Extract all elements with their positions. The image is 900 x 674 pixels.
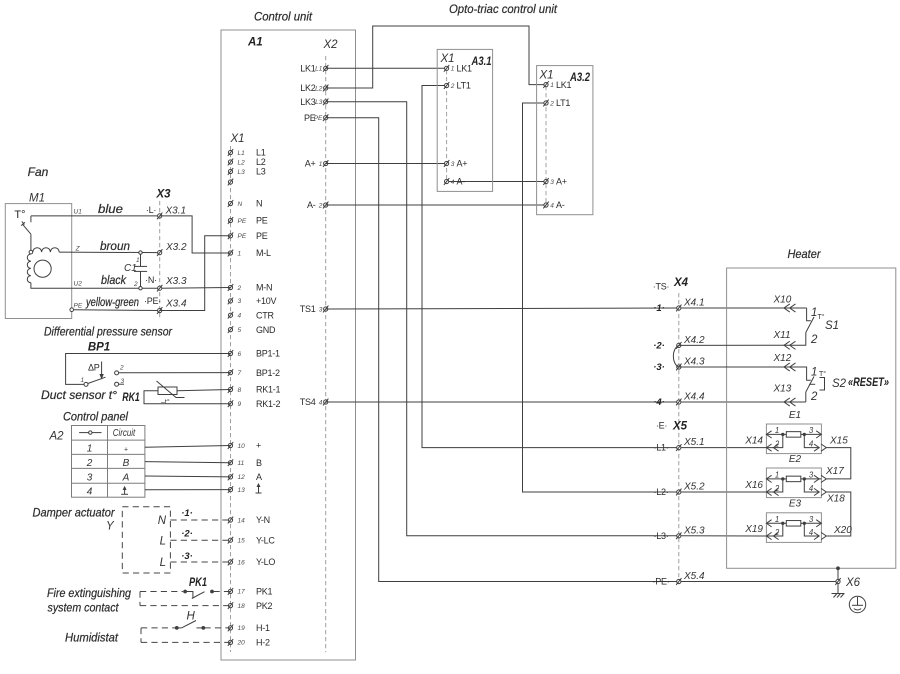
connector X11 chevrons: [784, 341, 790, 349]
svg-text:T°: T°: [14, 209, 25, 221]
svg-text:X11: X11: [773, 330, 791, 341]
terminal X3.4: [157, 299, 187, 314]
svg-text:1: 1: [550, 82, 554, 89]
svg-text:·1·: ·1·: [653, 303, 665, 314]
svg-text:·E·: ·E·: [656, 421, 667, 431]
terminal X4.1: [653, 298, 704, 315]
terminal X5.2: [653, 482, 705, 498]
svg-text:broun: broun: [100, 239, 130, 253]
svg-text:A+: A+: [305, 159, 316, 169]
svg-text:LK1: LK1: [556, 80, 572, 90]
svg-text:9: 9: [238, 401, 242, 408]
svg-text:X14: X14: [744, 436, 763, 447]
wire A2 row2 to X1:11: [145, 462, 231, 463]
svg-text:X4.1: X4.1: [683, 298, 705, 309]
svg-text:Circuit: Circuit: [113, 428, 136, 439]
terminal X3.3: [157, 276, 187, 292]
fire contact dashed wire left: [140, 591, 183, 593]
svg-text:·4·: ·4·: [653, 397, 665, 408]
svg-text:7: 7: [238, 370, 242, 377]
motor thermal contact: [21, 216, 31, 250]
svg-text:Fan: Fan: [28, 165, 49, 179]
svg-text:L3: L3: [256, 167, 266, 177]
junction dot heater enclosure PE: [836, 566, 840, 570]
svg-text:2: 2: [450, 83, 455, 90]
svg-text:14: 14: [238, 517, 246, 524]
BP1 actuator arrow dP: [99, 362, 103, 380]
wire BP1 pin2 to X1:7: [119, 372, 231, 374]
svg-text:GND: GND: [256, 325, 276, 335]
terminal X1:PE PE: [228, 216, 268, 226]
svg-text:A-: A-: [457, 177, 466, 187]
terminal strip X1 dashed line: [230, 146, 232, 652]
svg-text:TS4: TS4: [300, 397, 316, 407]
fire contact dashed wire right to X1:17: [214, 591, 231, 593]
wire yellow-green PE to X3.4: [74, 309, 160, 312]
motor bottom wire to U2: [31, 283, 160, 289]
svg-text:T°: T°: [818, 313, 825, 321]
svg-text:L1: L1: [315, 66, 323, 73]
humidistat dashed wire to X1:20: [141, 641, 231, 643]
svg-text:Control panel: Control panel: [63, 410, 128, 424]
svg-text:Opto-triac control unit: Opto-triac control unit: [449, 2, 558, 16]
humidistat dashed wire left: [141, 627, 175, 629]
E2 pin 1: [766, 471, 782, 483]
terminal X1:20 H-2: [228, 638, 270, 648]
svg-text:PE: PE: [314, 115, 323, 122]
terminal X2:L1 LK1: [300, 64, 328, 74]
svg-text:LK2: LK2: [300, 83, 316, 93]
wire RK1 right to X1:8: [177, 390, 231, 391]
terminal X1:17 PK1: [228, 587, 273, 597]
E1 pin 3: [804, 426, 821, 438]
terminal X1:L2 L2: [228, 157, 266, 167]
svg-text:L1: L1: [256, 148, 266, 158]
svg-text:L3: L3: [315, 99, 323, 106]
terminal X1:3 +10V: [228, 296, 277, 306]
svg-text:X5.2: X5.2: [683, 482, 705, 493]
svg-text:X16: X16: [744, 480, 763, 491]
E2 pin 3: [804, 471, 826, 483]
svg-text:3: 3: [809, 471, 814, 480]
svg-text:X19: X19: [744, 524, 763, 535]
svg-text:1: 1: [136, 257, 140, 264]
thermal cutout S2: [679, 367, 814, 402]
svg-text:3: 3: [238, 298, 242, 305]
wire RK1 left to X1:9: [144, 391, 231, 404]
terminal X1:15 Y-LC: [228, 535, 276, 545]
svg-text:3: 3: [550, 179, 554, 186]
E2 pin 4: [804, 479, 826, 496]
svg-text:X17: X17: [825, 466, 844, 477]
svg-text:2: 2: [119, 365, 124, 372]
node C1 bottom on black wire: [139, 287, 142, 290]
svg-text:12: 12: [238, 474, 246, 481]
svg-text:15: 15: [238, 538, 246, 545]
svg-text:1: 1: [811, 367, 817, 379]
svg-text:17: 17: [238, 589, 246, 596]
S2 reset dashed link: [809, 383, 819, 385]
E1 pin 1: [766, 426, 782, 438]
svg-text:X4.4: X4.4: [683, 392, 705, 403]
svg-text:·N·: ·N·: [145, 275, 157, 285]
svg-text:N: N: [256, 199, 262, 209]
wire LK2 X2 to A3.2:1: [326, 26, 546, 88]
svg-text:ΔP: ΔP: [88, 363, 100, 373]
svg-text:BP1-2: BP1-2: [256, 368, 280, 378]
svg-text:X20: X20: [833, 525, 852, 536]
svg-text:X5.4: X5.4: [683, 571, 705, 582]
svg-text:1: 1: [775, 515, 779, 524]
svg-text:RK1: RK1: [122, 392, 140, 404]
svg-text:E3: E3: [789, 499, 802, 510]
svg-text:·1·: ·1·: [181, 508, 193, 519]
control unit A1 box: [221, 30, 356, 660]
svg-text:+: +: [256, 441, 261, 451]
signal-ground symbol at X1:13: [256, 483, 262, 493]
resistor in E2: [786, 476, 801, 482]
damper actuator Y dashed box: [122, 507, 170, 573]
svg-text:A-: A-: [307, 200, 316, 210]
svg-text:·L2·: ·L2·: [653, 487, 668, 497]
terminal X1:8 RK1-1: [228, 385, 281, 395]
svg-text:4: 4: [809, 439, 814, 448]
svg-text:Fire extinguishing: Fire extinguishing: [47, 586, 131, 600]
svg-text:·2·: ·2·: [653, 340, 665, 351]
motor rotor circle: [34, 260, 51, 277]
svg-text:2: 2: [774, 439, 780, 448]
A2 row 4 signal ground symbol: [121, 486, 128, 495]
terminal X1:9 RK1-2: [228, 399, 281, 409]
dashed wire damper L to X1:15: [170, 539, 230, 541]
svg-text:11: 11: [238, 460, 245, 467]
wire X3.4 to X1:PE: [160, 236, 231, 311]
opto-triac module A3.2 box: [537, 66, 593, 215]
thermistor RK1 body: [158, 387, 177, 395]
svg-text:PK1: PK1: [256, 587, 273, 597]
fire contact bracket: [139, 592, 141, 606]
svg-text:16: 16: [238, 559, 246, 566]
svg-text:+10V: +10V: [256, 296, 277, 306]
humidistat dashed wire right to X1:19: [205, 627, 231, 629]
svg-text:X15: X15: [829, 436, 848, 447]
svg-text:X1: X1: [230, 133, 245, 145]
svg-text:13: 13: [238, 487, 246, 494]
terminal X1:19 H-1: [228, 623, 270, 633]
svg-text:1: 1: [775, 471, 779, 480]
svg-text:1: 1: [238, 250, 242, 257]
connector X13 chevrons: [784, 398, 790, 406]
svg-text:4: 4: [550, 202, 554, 209]
svg-text:X1: X1: [539, 70, 554, 82]
svg-text:LK3: LK3: [300, 97, 316, 107]
svg-text:PE: PE: [238, 218, 247, 225]
svg-text:Y-N: Y-N: [256, 515, 270, 525]
terminal A3.1 X1:4 A-: [444, 177, 465, 187]
wire X15 to X17 bracket: [826, 448, 851, 479]
wire A3.1:2 LT1 to X5.1: [422, 86, 766, 448]
svg-text:3: 3: [319, 306, 323, 313]
terminal X3.2: [157, 242, 187, 256]
svg-text:–t°: –t°: [161, 398, 170, 406]
thermistor RK1 strike: [157, 381, 185, 398]
A2 header contact symbol: [79, 431, 101, 434]
E3 pin 3: [804, 515, 821, 527]
terminal strip X2 dashed line: [325, 56, 327, 652]
wire TS4 X2 to X4.4: [326, 401, 806, 403]
svg-text:M-N: M-N: [256, 283, 272, 293]
svg-text:X13: X13: [773, 384, 792, 395]
terminal strip X3 dashed line: [159, 201, 161, 318]
terminal X1:7 BP1-2: [228, 368, 280, 378]
svg-text:PK1: PK1: [189, 577, 207, 589]
svg-text:T°: T°: [819, 370, 826, 378]
svg-text:1: 1: [81, 377, 85, 384]
terminal X2:2 A-: [307, 200, 328, 210]
svg-text:4: 4: [809, 484, 814, 493]
svg-text:E2: E2: [789, 454, 802, 465]
wire A3.1:4 to A3.2:3: [447, 181, 546, 183]
svg-text:18: 18: [238, 603, 246, 610]
terminal X2:1 A+: [305, 159, 329, 169]
svg-text:·L3·: ·L3·: [653, 531, 668, 541]
terminal X1:6 BP1-1: [228, 349, 280, 359]
svg-text:S2: S2: [832, 378, 847, 390]
terminal X1:spare: [228, 179, 233, 186]
terminal X1:13: [228, 486, 245, 494]
humidistat contact H: [175, 621, 205, 630]
wire A2 row1 to X1:10: [145, 446, 231, 448]
wire TS1 X2 to X4.1: [326, 308, 807, 309]
svg-text:L1: L1: [238, 150, 246, 157]
svg-text:X4.2: X4.2: [683, 335, 705, 346]
BP1 pin 1: [84, 382, 88, 386]
svg-text:X4: X4: [673, 277, 689, 289]
svg-text:A+: A+: [457, 159, 468, 169]
svg-text:4: 4: [451, 179, 455, 186]
BP1 pin 3: [115, 382, 119, 386]
svg-text:X3.4: X3.4: [165, 299, 187, 310]
svg-text:1: 1: [451, 66, 455, 73]
svg-text:S1: S1: [825, 320, 839, 332]
terminal X1:N N: [228, 199, 262, 209]
svg-text:X3: X3: [155, 189, 171, 201]
heating element E2 box: [766, 468, 821, 498]
motor M1 box: [5, 204, 71, 319]
terminal A3.1 X1:3 A+: [444, 159, 467, 169]
terminal X2:L3 LK3: [300, 97, 328, 107]
svg-text:1: 1: [87, 444, 93, 455]
svg-text:H-1: H-1: [256, 623, 270, 633]
svg-text:Y-LC: Y-LC: [256, 535, 275, 545]
terminal X6: [835, 578, 840, 585]
svg-text:2: 2: [318, 202, 323, 209]
wire A- X2 to A3.2:4: [326, 204, 546, 206]
svg-text:X5.3: X5.3: [683, 525, 705, 536]
A3.2 X1 dashed strip: [545, 86, 547, 205]
svg-text:LT1: LT1: [457, 81, 471, 91]
terminal A3.2 X1:3 A+: [543, 177, 566, 187]
E1 pin 4: [804, 434, 826, 451]
opto-triac module A3.1 box: [437, 49, 492, 191]
terminal X2:L2 LK2: [300, 83, 328, 93]
svg-text:4: 4: [319, 399, 323, 406]
wire A3.2:2 LT1 to X5.2: [523, 103, 767, 492]
svg-text:3: 3: [809, 515, 814, 524]
terminal X4.2: [653, 335, 705, 352]
svg-text:blue: blue: [98, 202, 123, 216]
svg-text:X12: X12: [773, 353, 792, 364]
wire BP1 common to X1:6: [66, 354, 231, 385]
svg-text:Damper actuator: Damper actuator: [33, 506, 116, 520]
svg-text:Differential pressure sensor: Differential pressure sensor: [44, 325, 173, 339]
dashed wire damper N to X1:14: [170, 519, 230, 521]
svg-text:2: 2: [549, 100, 554, 107]
svg-text:X18: X18: [826, 494, 845, 505]
svg-text:A-: A-: [556, 200, 565, 210]
terminal A3.1 X1:1 LK1: [444, 64, 472, 74]
svg-text:A3.1: A3.1: [471, 56, 492, 68]
svg-text:X3.1: X3.1: [165, 206, 187, 217]
terminal X1:4 CTR: [228, 310, 275, 320]
terminal X1:5 GND: [228, 325, 276, 335]
jumper X4.2 to X4.3: [673, 345, 678, 367]
resistor in E1: [786, 432, 801, 438]
svg-text:8: 8: [238, 387, 242, 394]
svg-text:U1: U1: [74, 209, 83, 216]
svg-text:A2: A2: [48, 431, 64, 443]
svg-text:PE: PE: [256, 231, 268, 241]
wire PE X2 to X5.4 to X6: [326, 118, 838, 582]
terminal X2:3 TS1: [300, 304, 329, 314]
svg-text:RK1-1: RK1-1: [256, 385, 281, 395]
terminal X1:L1 L1: [228, 148, 266, 158]
svg-text:Heater: Heater: [788, 247, 822, 261]
svg-text:L3: L3: [238, 169, 246, 176]
A3.1 X1 dashed strip: [446, 70, 448, 182]
resistor in E3: [786, 521, 801, 527]
svg-text:PK2: PK2: [256, 601, 273, 611]
svg-text:1: 1: [811, 307, 817, 319]
E3 pin 2: [766, 523, 782, 539]
svg-text:TS1: TS1: [300, 304, 316, 314]
wire LK3 X2 to X5.3: [326, 102, 767, 536]
BP1 pin3 stub: [119, 383, 124, 385]
svg-text:3: 3: [451, 161, 455, 168]
svg-text:20: 20: [237, 640, 246, 647]
svg-text:4: 4: [809, 528, 814, 537]
svg-text:6: 6: [238, 351, 242, 358]
E2 pin 2: [766, 479, 782, 496]
svg-text:N: N: [238, 201, 243, 208]
terminal A3.2 X1:4 A-: [543, 200, 564, 210]
fire contact PK1: [183, 590, 214, 599]
svg-text:L2: L2: [256, 157, 266, 167]
svg-text:·L1·: ·L1·: [653, 443, 668, 453]
svg-text:H-2: H-2: [256, 638, 270, 648]
svg-text:BP1: BP1: [88, 342, 110, 354]
terminal A3.1 X1:2 LT1: [444, 81, 471, 91]
terminal X5.4: [653, 571, 706, 587]
terminal strip X4/X5 dashed line: [678, 293, 680, 585]
svg-text:·PE·: ·PE·: [144, 296, 161, 306]
svg-text:X3.2: X3.2: [165, 242, 187, 253]
E3 pin 4: [804, 523, 826, 539]
svg-text:·TS·: ·TS·: [653, 282, 670, 292]
svg-text:2: 2: [237, 285, 242, 292]
svg-text:4: 4: [238, 313, 242, 320]
svg-text:·2·: ·2·: [181, 529, 193, 540]
svg-text:2: 2: [810, 334, 818, 346]
svg-text:X5.1: X5.1: [683, 437, 705, 448]
terminal X1:L3 L3: [228, 167, 266, 177]
node C1 top on broun wire: [139, 251, 142, 254]
svg-text:Humidistat: Humidistat: [65, 631, 119, 645]
terminal X4.4: [653, 392, 705, 409]
terminal X4.3: [653, 357, 705, 374]
heater box: [727, 268, 896, 568]
humidistat bracket: [140, 628, 142, 643]
thermal cutout S1: [679, 308, 814, 345]
wire X3.1 to X1:1 M-L: [160, 216, 231, 253]
svg-text:2: 2: [810, 391, 818, 403]
svg-text:yellow-green: yellow-green: [85, 295, 139, 309]
svg-text:X4.3: X4.3: [683, 357, 705, 368]
svg-text:L: L: [160, 536, 166, 548]
svg-text:X5: X5: [672, 421, 688, 433]
terminal X1:11 B: [228, 458, 262, 468]
BP1 contact blade: [88, 377, 106, 383]
svg-text:A: A: [256, 472, 262, 482]
terminal A3.2 X1:1 LK1: [543, 80, 571, 90]
svg-text:PE: PE: [238, 233, 247, 240]
terminal X1:12 A: [228, 472, 262, 482]
svg-text:X10: X10: [773, 295, 792, 306]
heating element E1 box: [766, 424, 821, 454]
svg-text:3: 3: [121, 378, 125, 385]
svg-text:E1: E1: [789, 410, 801, 421]
svg-text:Duct sensor t°: Duct sensor t°: [41, 388, 117, 402]
svg-text:+: +: [124, 447, 128, 454]
terminal X3.1: [157, 206, 186, 220]
svg-text:Y: Y: [106, 521, 115, 533]
terminal X5.1: [653, 437, 704, 453]
wire X18 to X20 bracket: [826, 492, 851, 536]
wire broun Z to X3.2: [59, 251, 160, 254]
svg-text:X1: X1: [440, 53, 455, 65]
heating element E3 box: [766, 513, 821, 543]
svg-text:3: 3: [87, 472, 93, 483]
svg-text:L2: L2: [238, 159, 246, 166]
svg-text:PE: PE: [74, 303, 83, 310]
fire contact dashed wire to X1:18: [140, 605, 231, 607]
svg-text:·PE·: ·PE·: [653, 577, 670, 587]
terminal A3.2 X1:2 LT1: [543, 98, 570, 108]
svg-text:X6: X6: [845, 577, 861, 589]
svg-text:LT1: LT1: [556, 98, 570, 108]
svg-text:N: N: [158, 515, 167, 527]
svg-text:2: 2: [86, 458, 93, 469]
E3 pin 1: [766, 515, 782, 527]
svg-text:X2: X2: [323, 39, 339, 51]
motor aux winding (vertical coil): [27, 254, 31, 283]
svg-text:4: 4: [87, 487, 93, 498]
svg-text:3: 3: [809, 426, 814, 435]
wire blue U1 to X3.1: [31, 215, 160, 217]
motor winding node: [29, 250, 33, 254]
svg-text:«RESET»: «RESET»: [848, 377, 889, 389]
svg-text:·3·: ·3·: [653, 362, 665, 373]
